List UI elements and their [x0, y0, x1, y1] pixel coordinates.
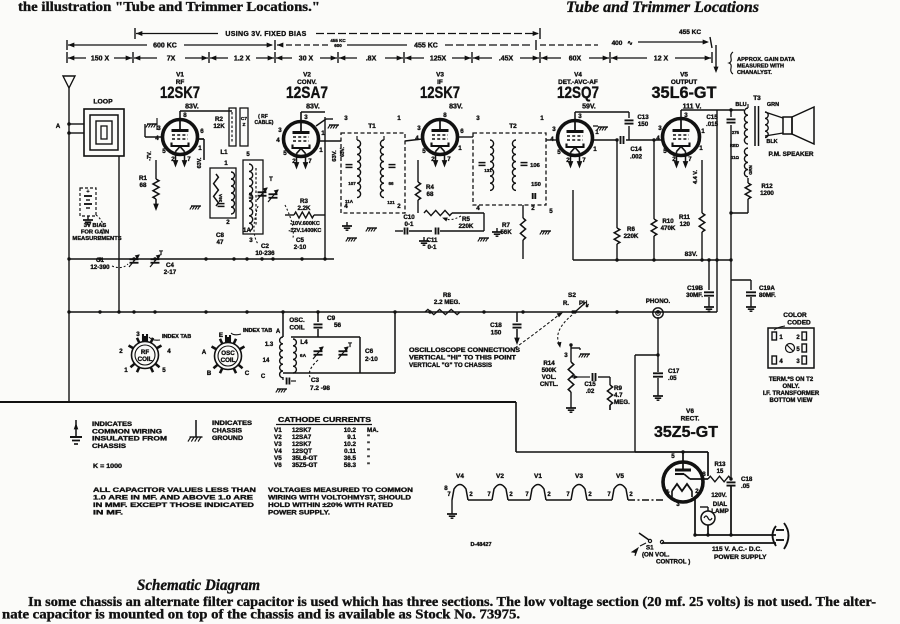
svg-text:8: 8	[443, 112, 447, 119]
svg-text:V4: V4	[574, 72, 582, 79]
svg-text:10-236: 10-236	[255, 250, 275, 257]
svg-text:VOL.: VOL.	[542, 374, 557, 381]
svg-text:5: 5	[162, 148, 166, 155]
svg-text:": "	[367, 448, 370, 455]
svg-text:R3: R3	[300, 198, 308, 205]
svg-text:1: 1	[224, 160, 228, 167]
svg-text:36.5: 36.5	[344, 455, 357, 462]
svg-text:150: 150	[638, 121, 649, 128]
svg-text:1: 1	[397, 115, 401, 122]
svg-text:1: 1	[319, 147, 323, 154]
svg-text:USING 3V. FIXED BIAS: USING 3V. FIXED BIAS	[225, 31, 306, 38]
svg-text:5: 5	[422, 148, 426, 155]
svg-text:INDICATES: INDICATES	[212, 420, 253, 427]
svg-text:V4: V4	[456, 473, 464, 480]
svg-text:7: 7	[666, 491, 670, 498]
svg-text:C4: C4	[166, 262, 174, 269]
svg-text:5: 5	[162, 367, 166, 374]
svg-text:63V.: 63V.	[332, 150, 338, 162]
svg-text:12SQT: 12SQT	[292, 448, 312, 455]
svg-text:5A: 5A	[248, 192, 253, 199]
svg-text:MA.: MA.	[367, 427, 379, 434]
svg-text:3: 3	[278, 127, 282, 134]
svg-text:275: 275	[732, 130, 740, 135]
svg-text:V2: V2	[496, 473, 504, 480]
svg-text:R2: R2	[215, 116, 223, 123]
svg-text:S2: S2	[568, 292, 576, 299]
svg-text:6A: 6A	[300, 353, 307, 359]
svg-text:2: 2	[566, 157, 570, 164]
svg-text:V5: V5	[680, 72, 688, 79]
svg-text:1: 1	[593, 146, 597, 153]
svg-text:the illustration "Tube and Tri: the illustration "Tube and Trimmer Locat…	[18, 0, 320, 14]
svg-text:10.2: 10.2	[344, 441, 357, 448]
svg-text:2: 2	[431, 156, 435, 163]
svg-text:R6: R6	[627, 226, 635, 233]
svg-text:VERTICAL "G" TO CHASSIS: VERTICAL "G" TO CHASSIS	[409, 362, 492, 369]
svg-text:R4: R4	[426, 184, 434, 191]
svg-text:MEASUREMENTS: MEASUREMENTS	[72, 236, 121, 242]
svg-text:1: 1	[124, 367, 128, 374]
svg-text:0-1: 0-1	[428, 244, 438, 251]
svg-text:2-10: 2-10	[294, 244, 307, 251]
svg-text:2-17: 2-17	[164, 269, 177, 276]
svg-text:COIL: COIL	[289, 325, 304, 332]
svg-text:RF: RF	[141, 349, 149, 356]
svg-text:4: 4	[276, 137, 280, 144]
svg-text:35L6-GT: 35L6-GT	[652, 84, 717, 102]
svg-text:500K: 500K	[542, 367, 557, 374]
svg-text:T1: T1	[368, 123, 376, 130]
svg-text:1.2 X: 1.2 X	[234, 56, 251, 63]
svg-text:66: 66	[388, 181, 394, 186]
svg-text:V3: V3	[274, 441, 282, 448]
svg-text:COLOR: COLOR	[783, 312, 807, 319]
svg-text:4: 4	[155, 135, 159, 142]
svg-text:R8: R8	[443, 292, 451, 299]
svg-text:8: 8	[444, 485, 448, 492]
svg-text:COMMON WIRING: COMMON WIRING	[92, 428, 162, 435]
svg-text:INDEX TAB: INDEX TAB	[162, 334, 191, 340]
svg-text:1: 1	[701, 128, 705, 135]
svg-text:4.4 V.: 4.4 V.	[693, 170, 699, 184]
svg-text:4: 4	[656, 135, 660, 142]
svg-text:C14: C14	[630, 146, 642, 153]
svg-text:80MF.: 80MF.	[759, 292, 776, 299]
svg-text:7: 7	[688, 156, 692, 163]
svg-text:.45X: .45X	[499, 56, 514, 63]
svg-text:131: 131	[484, 168, 492, 173]
svg-text:1.0 ARE IN MF. AND ABOVE 1.0 A: 1.0 ARE IN MF. AND ABOVE 1.0 ARE	[93, 495, 254, 502]
svg-text:.002: .002	[630, 154, 643, 161]
svg-text:150 X: 150 X	[91, 56, 110, 63]
svg-text:1.3: 1.3	[265, 342, 274, 348]
svg-text:OSC: OSC	[221, 350, 235, 357]
svg-text:5: 5	[283, 150, 287, 157]
svg-text:ONLY.: ONLY.	[782, 384, 799, 390]
svg-text:C19A: C19A	[759, 285, 775, 292]
svg-text:4: 4	[167, 348, 171, 355]
svg-text:12K: 12K	[213, 123, 225, 130]
svg-text:35Z5-GT: 35Z5-GT	[654, 424, 719, 441]
svg-text:220K: 220K	[624, 233, 639, 240]
svg-text:3: 3	[304, 114, 308, 121]
svg-text:(ON VOL.: (ON VOL.	[642, 552, 670, 559]
svg-text:125X: 125X	[430, 56, 447, 63]
svg-text:9.1: 9.1	[347, 434, 356, 441]
svg-text:C7: C7	[241, 116, 247, 122]
svg-text:POWER SUPPLY: POWER SUPPLY	[714, 554, 767, 561]
svg-text:CNTL.: CNTL.	[540, 381, 558, 388]
svg-text:V6: V6	[274, 462, 282, 469]
svg-text:DIAL: DIAL	[713, 501, 728, 508]
svg-text:5: 5	[557, 149, 561, 156]
svg-text:C15: C15	[584, 381, 596, 388]
svg-text:A: A	[56, 123, 61, 130]
svg-text:4.7: 4.7	[614, 392, 623, 399]
svg-text:68: 68	[140, 182, 147, 189]
svg-text:POWER SUPPLY.: POWER SUPPLY.	[268, 510, 330, 517]
svg-text:C19B: C19B	[687, 285, 703, 292]
svg-text:7: 7	[308, 158, 312, 165]
svg-text:220K: 220K	[459, 223, 474, 230]
svg-text:": "	[367, 462, 370, 469]
svg-text:8: 8	[702, 471, 706, 478]
svg-text:": "	[367, 455, 370, 462]
svg-text:2: 2	[672, 156, 676, 163]
svg-text:BLU: BLU	[735, 102, 746, 108]
svg-text:36A: 36A	[218, 193, 223, 202]
svg-text:VERTICAL "HI" TO THIS POINT: VERTICAL "HI" TO THIS POINT	[409, 355, 516, 362]
svg-text:RED: RED	[730, 143, 739, 148]
svg-text:COIL: COIL	[221, 357, 236, 364]
svg-text:58.3: 58.3	[344, 462, 357, 469]
svg-text:": "	[367, 441, 370, 448]
svg-text:": "	[367, 434, 370, 441]
svg-text:12-390: 12-390	[90, 264, 110, 271]
svg-text:C: C	[261, 374, 266, 380]
svg-text:IN MF.: IN MF.	[93, 510, 123, 517]
svg-text:TERM.*S ON T2: TERM.*S ON T2	[769, 377, 814, 383]
svg-text:C8: C8	[216, 232, 224, 239]
svg-text:T: T	[269, 177, 273, 183]
svg-text:12SK7: 12SK7	[292, 441, 312, 448]
svg-text:K = 1000: K = 1000	[93, 463, 122, 470]
svg-text:12 X: 12 X	[654, 56, 669, 63]
svg-text:3: 3	[658, 125, 662, 132]
svg-text:0.11: 0.11	[344, 448, 356, 455]
svg-text:5: 5	[663, 148, 667, 155]
svg-text:455 KC: 455 KC	[679, 29, 701, 36]
svg-text:HOLD WITHIN ±20% WITH RATED: HOLD WITHIN ±20% WITH RATED	[268, 502, 393, 509]
svg-text:C5: C5	[296, 237, 304, 244]
svg-text:12SK7: 12SK7	[160, 84, 200, 102]
svg-text:0-1: 0-1	[405, 221, 415, 228]
svg-text:400: 400	[612, 40, 623, 47]
svg-text:1: 1	[198, 145, 202, 152]
svg-text:5: 5	[549, 208, 553, 215]
svg-text:1: 1	[540, 115, 544, 122]
svg-text:11Ω: 11Ω	[731, 155, 740, 160]
svg-text:R.: R.	[563, 301, 569, 307]
svg-text:120V.: 120V.	[711, 492, 727, 499]
svg-text:CABLE): CABLE)	[255, 120, 274, 126]
svg-text:C18: C18	[741, 476, 753, 483]
svg-text:R13: R13	[714, 462, 726, 468]
svg-text:Z: Z	[243, 122, 246, 128]
svg-text:MEASURED WITH: MEASURED WITH	[737, 64, 784, 70]
svg-text:600 KC: 600 KC	[153, 43, 177, 50]
svg-text:12SQ7: 12SQ7	[557, 84, 599, 102]
svg-text:107: 107	[348, 181, 356, 186]
svg-text:2-10: 2-10	[365, 356, 378, 363]
svg-text:nate capacitor is mounted on t: nate capacitor is mounted on top of the …	[2, 607, 520, 622]
svg-text:4: 4	[415, 135, 419, 142]
svg-text:.02: .02	[586, 388, 595, 395]
svg-text:2.2 MEG.: 2.2 MEG.	[434, 299, 460, 306]
svg-text:Schematic Diagram: Schematic Diagram	[137, 577, 260, 594]
svg-text:V1: V1	[176, 72, 184, 79]
svg-text:INDICATES: INDICATES	[92, 421, 133, 428]
svg-text:CHANALYST.: CHANALYST.	[737, 70, 772, 76]
svg-text:3: 3	[684, 112, 688, 119]
svg-text:7: 7	[447, 156, 451, 163]
svg-text:7.2 -98: 7.2 -98	[310, 385, 330, 392]
svg-text:V3: V3	[575, 473, 583, 480]
svg-text:C17: C17	[668, 368, 680, 375]
svg-text:V2: V2	[303, 72, 311, 79]
svg-text:GRN: GRN	[767, 102, 779, 108]
svg-text:1: 1	[699, 145, 703, 152]
svg-text:3: 3	[476, 115, 480, 122]
svg-text:1A: 1A	[243, 227, 251, 234]
svg-text:7X: 7X	[167, 56, 176, 63]
svg-text:V6: V6	[686, 408, 694, 415]
svg-text:P.M. SPEAKER: P.M. SPEAKER	[769, 151, 814, 158]
svg-text:4: 4	[344, 203, 348, 210]
svg-text:B: B	[207, 370, 212, 377]
svg-text:600: 600	[334, 43, 342, 48]
svg-text:8: 8	[183, 112, 187, 119]
svg-text:12SK7: 12SK7	[292, 427, 312, 434]
svg-text:L1: L1	[220, 149, 228, 156]
svg-text:MEG.: MEG.	[614, 399, 630, 406]
svg-text:83V.: 83V.	[185, 104, 199, 111]
svg-text:115 V. A.C.- D.C.: 115 V. A.C.- D.C.	[712, 546, 762, 553]
svg-text:1: 1	[458, 145, 462, 152]
svg-text:WIRING WITH VOLTOHMYST, SHOULD: WIRING WITH VOLTOHMYST, SHOULD	[268, 495, 411, 502]
svg-text:68: 68	[427, 191, 434, 198]
svg-text:3: 3	[157, 125, 161, 132]
svg-text:455 KC: 455 KC	[414, 43, 438, 50]
svg-text:R7: R7	[502, 222, 510, 229]
svg-text:3: 3	[417, 125, 421, 132]
svg-text:3: 3	[578, 113, 582, 120]
svg-text:C18: C18	[490, 322, 502, 329]
svg-text:-10V.600KC: -10V.600KC	[290, 221, 320, 227]
svg-text:L4: L4	[300, 339, 308, 346]
svg-text:.05: .05	[668, 375, 677, 382]
svg-text:-12V.1400KC: -12V.1400KC	[289, 228, 322, 234]
svg-text:C: C	[245, 370, 250, 377]
svg-text:V4: V4	[274, 448, 282, 455]
svg-text:3: 3	[552, 126, 556, 133]
svg-text:5: 5	[671, 453, 675, 460]
svg-text:R11: R11	[679, 214, 691, 221]
svg-text:Tube and Trimmer Locations: Tube and Trimmer Locations	[566, 0, 759, 16]
svg-text:V5: V5	[274, 455, 282, 462]
svg-text:LOOP: LOOP	[93, 99, 113, 106]
svg-text:A: A	[202, 349, 207, 356]
svg-text:A: A	[276, 329, 281, 335]
svg-text:2: 2	[171, 156, 175, 163]
svg-text:FOR GAIN: FOR GAIN	[81, 230, 109, 236]
svg-text:C10: C10	[403, 214, 415, 221]
svg-text:.05: .05	[741, 483, 750, 490]
svg-text:12SA7: 12SA7	[286, 84, 328, 102]
svg-text:10.2: 10.2	[344, 427, 357, 434]
svg-text:VOLTAGES MEASURED TO COMMON: VOLTAGES MEASURED TO COMMON	[268, 487, 413, 494]
svg-text:1200: 1200	[760, 190, 774, 197]
svg-text:BOTTOM VIEW: BOTTOM VIEW	[770, 398, 813, 404]
svg-text:R1: R1	[139, 175, 147, 182]
svg-text:.8X: .8X	[366, 56, 377, 63]
svg-text:83V.: 83V.	[685, 251, 698, 258]
svg-text:V1: V1	[534, 473, 542, 480]
svg-text:CHASSIS: CHASSIS	[212, 428, 243, 435]
svg-text:C3: C3	[311, 377, 320, 384]
svg-text:2: 2	[531, 205, 535, 212]
svg-text:OSCILLOSCOPE CONNECTIONS: OSCILLOSCOPE CONNECTIONS	[409, 347, 520, 354]
svg-text:CODED: CODED	[787, 320, 811, 327]
svg-text:IN MMF. EXCEPT THOSE INDICATED: IN MMF. EXCEPT THOSE INDICATED	[93, 502, 254, 509]
svg-text:∿: ∿	[627, 40, 633, 47]
svg-text:63V.: 63V.	[340, 146, 346, 156]
svg-text:OSC.: OSC.	[289, 317, 305, 324]
svg-text:6: 6	[200, 128, 204, 135]
svg-text:121: 121	[387, 200, 395, 205]
svg-text:CHASSIS: CHASSIS	[92, 443, 127, 450]
svg-text:R14: R14	[543, 360, 555, 367]
svg-text:3: 3	[564, 352, 568, 359]
svg-text:V2: V2	[274, 434, 282, 441]
svg-text:35L6-GT: 35L6-GT	[292, 455, 317, 462]
svg-text:12SK7: 12SK7	[420, 84, 460, 102]
svg-text:2: 2	[292, 158, 296, 165]
svg-text:INDEX TAB: INDEX TAB	[243, 328, 272, 334]
svg-text:2: 2	[119, 348, 123, 355]
svg-text:3: 3	[676, 501, 680, 508]
svg-text:106: 106	[530, 163, 540, 169]
svg-text:470K: 470K	[661, 225, 676, 232]
svg-text:V3: V3	[436, 72, 444, 79]
svg-text:56K: 56K	[500, 229, 512, 236]
svg-text:S1: S1	[646, 545, 654, 552]
svg-text:C9: C9	[327, 315, 336, 322]
svg-text:RECT.: RECT.	[681, 416, 700, 423]
svg-text:T3: T3	[753, 95, 761, 102]
svg-text:CATHODE CURRENTS: CATHODE CURRENTS	[278, 415, 371, 424]
svg-text:V5: V5	[616, 473, 624, 480]
svg-text:D-48427: D-48427	[470, 542, 491, 548]
svg-text:60X: 60X	[569, 56, 582, 63]
svg-text:7: 7	[187, 156, 191, 163]
svg-text:2: 2	[695, 488, 699, 495]
svg-text:30 X: 30 X	[299, 56, 314, 63]
svg-text:14: 14	[263, 358, 270, 364]
svg-text:I.F. TRANSFORMER: I.F. TRANSFORMER	[763, 391, 820, 397]
svg-text:APPROX. GAIN DATA: APPROX. GAIN DATA	[737, 57, 796, 63]
svg-text:GRN: GRN	[748, 165, 753, 175]
svg-text:2: 2	[226, 219, 230, 226]
svg-text:47: 47	[217, 239, 224, 246]
svg-text:T2: T2	[509, 123, 517, 130]
svg-text:7: 7	[582, 157, 586, 164]
svg-text:ALL CAPACITOR VALUES LESS THAN: ALL CAPACITOR VALUES LESS THAN	[93, 487, 256, 494]
svg-text:455 KC: 455 KC	[330, 38, 346, 43]
svg-text:R12: R12	[761, 183, 773, 190]
svg-text:V1: V1	[274, 427, 282, 434]
svg-text:15: 15	[717, 469, 724, 475]
svg-text:3: 3	[136, 331, 140, 338]
svg-text:35Z5-GT: 35Z5-GT	[292, 462, 317, 469]
svg-text:C13: C13	[637, 114, 649, 121]
svg-text:C2: C2	[261, 243, 269, 250]
svg-text:2: 2	[397, 203, 401, 210]
svg-text:3: 3	[344, 115, 348, 122]
svg-text:COIL: COIL	[138, 356, 153, 363]
svg-text:CONTROL ): CONTROL )	[656, 559, 690, 566]
svg-text:BLK: BLK	[766, 139, 777, 145]
svg-text:30MF.: 30MF.	[686, 292, 703, 299]
svg-text:C6: C6	[365, 348, 374, 355]
svg-text:83V.: 83V.	[306, 104, 320, 111]
svg-text:63V.: 63V.	[197, 157, 203, 168]
svg-text:R5: R5	[462, 216, 470, 223]
svg-text:6: 6	[460, 128, 464, 135]
svg-text:4: 4	[476, 205, 480, 212]
svg-text:150: 150	[531, 182, 541, 188]
svg-text:R9: R9	[614, 385, 622, 392]
svg-text:12SA7: 12SA7	[292, 434, 312, 441]
svg-text:GROUND: GROUND	[212, 435, 243, 442]
svg-text:150: 150	[491, 330, 502, 337]
svg-text:T: T	[348, 342, 352, 349]
svg-text:59V.: 59V.	[582, 104, 596, 111]
svg-text:3: 3	[249, 237, 253, 244]
svg-text:120: 120	[680, 221, 691, 228]
svg-text:+: +	[86, 189, 89, 195]
svg-text:83V.: 83V.	[449, 104, 463, 111]
svg-text:R10: R10	[662, 218, 674, 225]
svg-text:E: E	[219, 332, 223, 339]
svg-text:-7V.: -7V.	[147, 151, 153, 161]
svg-text:INSULATED FROM: INSULATED FROM	[92, 436, 168, 443]
svg-text:PHONO.: PHONO.	[646, 298, 671, 305]
svg-text:56: 56	[334, 322, 342, 329]
